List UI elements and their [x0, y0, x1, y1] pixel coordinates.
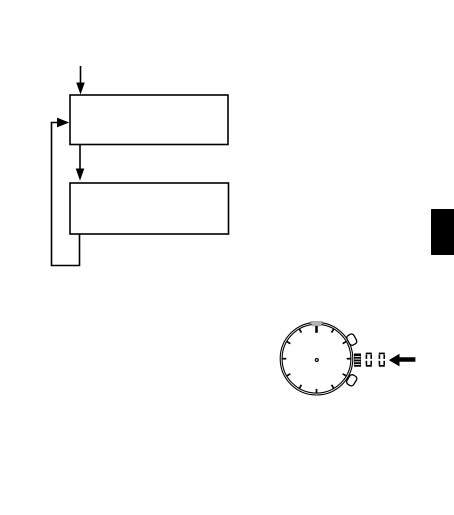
feedback loop wire [52, 123, 80, 266]
digit 0 (tens) [366, 353, 372, 367]
arrow box 1 to box 2 [76, 145, 85, 181]
digit 0 (ones) [379, 353, 385, 367]
arrow into box 1 [76, 66, 85, 95]
watch case outer circle [280, 322, 353, 395]
feedback arrowhead [57, 118, 69, 128]
watch case inner circle [282, 324, 351, 393]
center pivot dot [315, 359, 318, 362]
box 2 (flowchart step 2) [70, 183, 229, 234]
upper pusher button A [346, 333, 358, 346]
page edge black tab [431, 209, 454, 255]
crown [354, 354, 361, 367]
12 o'clock marker [311, 321, 323, 333]
hour tick marks [282, 329, 352, 394]
lower pusher button B [346, 374, 358, 387]
big left-pointing arrow [389, 354, 416, 367]
box 1 (flowchart step 1) [70, 95, 228, 145]
